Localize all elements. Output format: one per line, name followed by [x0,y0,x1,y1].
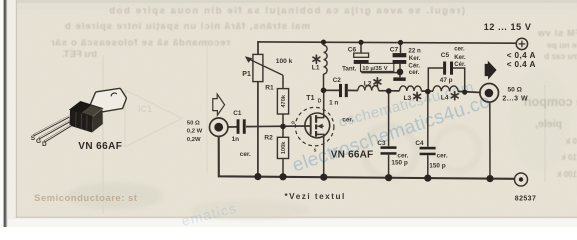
capacitor C3 [388,91,390,178]
output connector J2 [480,84,499,179]
capacitor C6 tantalum [354,42,400,72]
node gate junction [280,124,286,130]
source stub + lead [317,134,324,177]
potentiometer P1 [248,54,283,81]
node C5 right [462,90,467,95]
inductor L1 [323,42,325,90]
gate line C1 to T1 [228,126,237,128]
capacitor C2 [339,84,348,97]
signal line drain to output [324,89,340,91]
supply terminal + [516,38,527,49]
left margin & border lines [0,0,4,227]
tab [90,88,127,112]
resistor R2 [277,126,288,176]
input labels [187,120,203,143]
asterisk L1 [313,55,320,63]
capacitor C5 bridge [428,68,464,92]
junction C6/C7 ground [397,69,404,76]
transistor T1 [295,90,334,177]
top rail [258,42,516,55]
watermark electroschematics [290,91,493,177]
value box 10u/35V [361,63,394,71]
bottom page edge [0,218,577,227]
capacitor C4 [427,92,429,179]
gate bar [310,116,312,134]
body front face [70,110,93,133]
node drain junction [321,88,327,94]
tab hole [111,93,116,96]
capacitor C7 [393,43,407,78]
bleed-through mirrored text top [50,6,577,180]
input connector J1 [210,118,228,136]
ground rail junction dots [254,173,493,182]
P1 bottom lead [257,82,259,177]
ground rail [219,136,515,179]
faint texture blobs [67,70,570,220]
channel segments [315,115,317,136]
inductor L2 [358,86,379,91]
body right face [92,109,103,133]
inductor L4 [433,86,458,92]
leads (hollow) [34,117,71,142]
output arrow filled [485,61,497,80]
ground bar [393,77,405,81]
ground terminal [515,173,528,186]
input arrow [213,94,225,115]
body top face [70,102,103,117]
inductor L3 [400,86,422,91]
faint bleed triangle IC1 [125,90,182,147]
drain stub + lead [317,90,324,117]
resistor R1 [277,75,288,126]
substrate stub [317,125,324,127]
node L1 top [321,40,326,45]
faint fold lines [102,55,104,214]
capacitor C1 [237,119,246,134]
